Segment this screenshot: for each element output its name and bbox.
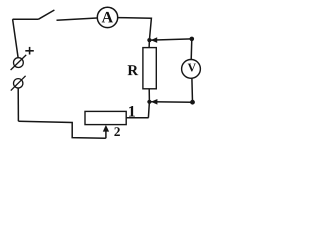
- voltmeter V: [182, 60, 201, 79]
- arrowhead: voltmeter bottom lead clip: [151, 99, 158, 105]
- terminal - (negative supply terminal): [11, 76, 26, 91]
- arrowhead: voltmeter top lead clip: [151, 37, 158, 43]
- resistor R: [143, 48, 156, 89]
- ammeter A: [97, 7, 117, 27]
- junction dot: top right voltmeter corner: [190, 37, 195, 42]
- label R: [128, 65, 139, 75]
- terminal + (positive supply terminal): [11, 55, 27, 70]
- rheostat (sliding resistor) body: [85, 111, 126, 124]
- wire: ammeter to top-right corner: [118, 18, 151, 40]
- wire: top horizontal to voltmeter branch: [151, 39, 192, 40]
- wire: negative terminal down to bottom rail: [17, 88, 19, 121]
- wiper arrow (terminal 2 of rheostat): [103, 125, 109, 138]
- wire: rheostat terminal 1 to right branch: [126, 117, 148, 119]
- junction dot: bottom right voltmeter corner: [190, 100, 195, 105]
- switch S (hinge wire + open blade): [13, 10, 55, 19]
- wire: resistor bottom through bottom junction down to rheostat corner: [148, 89, 149, 118]
- junction dot: top of resistor: [147, 38, 151, 42]
- label 1 (rheostat terminal): [129, 106, 135, 117]
- wire: bottom horizontal back to bottom junction: [151, 101, 193, 103]
- wire: top junction to resistor top: [148, 40, 150, 48]
- wire: voltmeter bottom lead: [191, 78, 194, 102]
- label 2 (wiper terminal): [114, 127, 119, 136]
- plus sign label: [25, 47, 34, 55]
- wire: voltmeter top lead: [190, 39, 193, 60]
- wire: left vertical from switch hinge down to + terminal: [13, 19, 19, 57]
- wire: bottom rail with jog to rheostat wiper: [18, 121, 105, 138]
- wire: switch fixed contact to ammeter: [57, 18, 97, 20]
- junction dot: bottom of resistor: [147, 100, 151, 104]
